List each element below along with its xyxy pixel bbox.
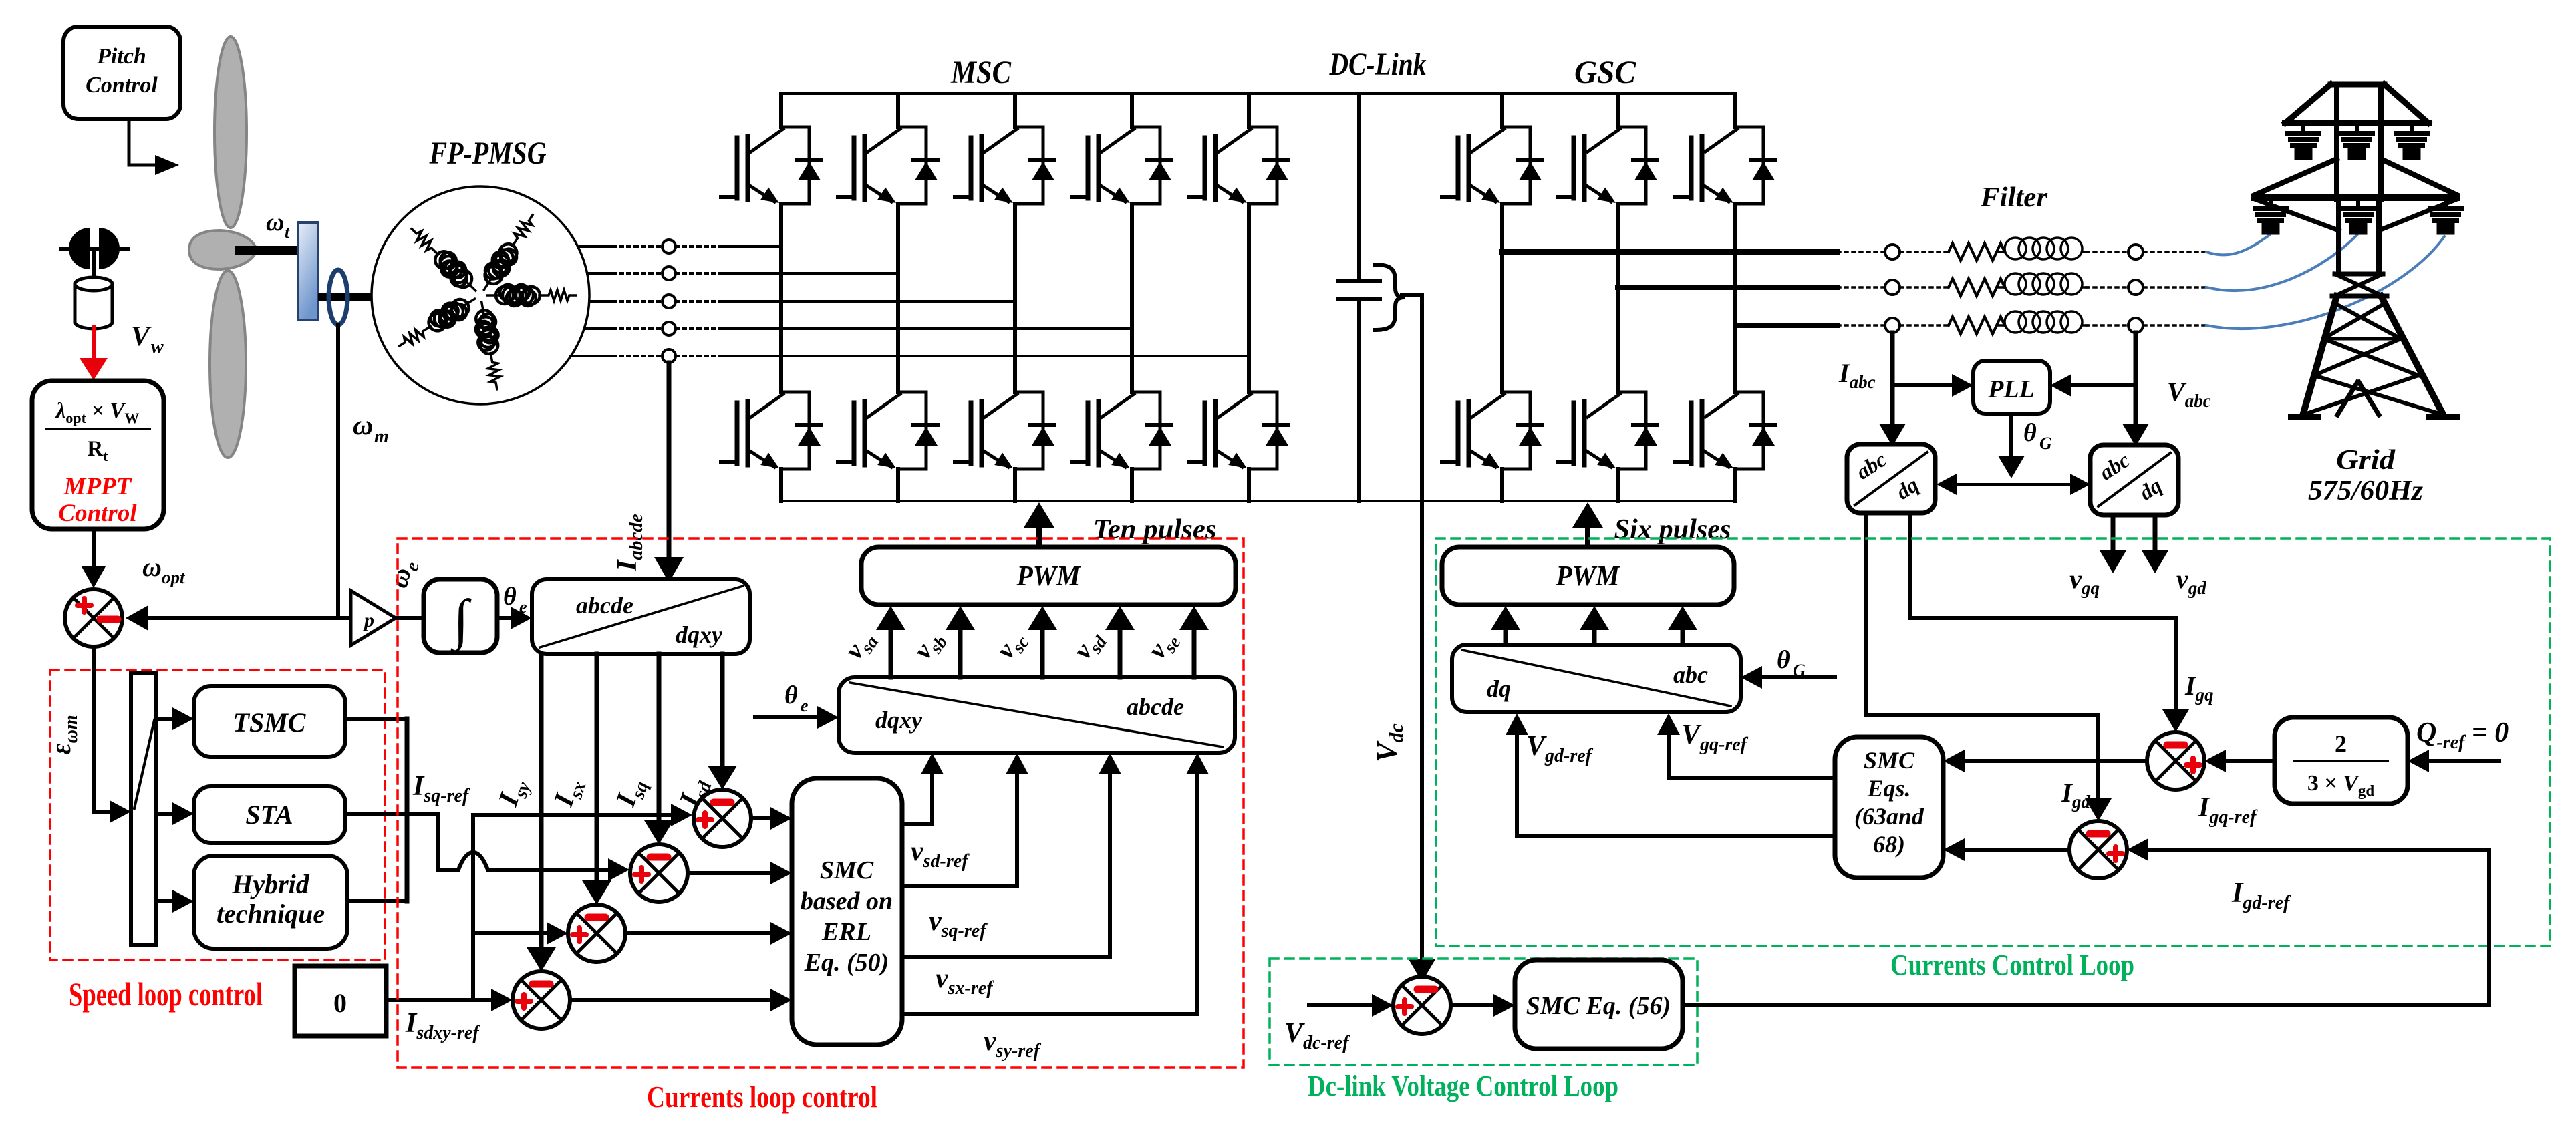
svg-text:PLL: PLL (1987, 375, 2035, 403)
svg-text:G: G (2039, 434, 2052, 453)
svg-text:SMC: SMC (1864, 747, 1915, 774)
svg-text:e: e (801, 696, 809, 715)
svg-text:m: m (374, 426, 389, 447)
svg-text:Currents Control Loop: Currents Control Loop (1890, 949, 2134, 981)
svg-text:STA: STA (245, 800, 293, 830)
svg-text:dqxy: dqxy (676, 621, 723, 648)
svg-text:PWM: PWM (1016, 561, 1081, 592)
svg-text:e: e (519, 597, 527, 617)
svg-text:SMC Eq. (56): SMC Eq. (56) (1526, 992, 1671, 1020)
svg-text:ω: ω (266, 208, 284, 236)
svg-text:SMC: SMC (820, 856, 874, 884)
svg-text:68): 68) (1873, 831, 1905, 858)
svg-text:abcde: abcde (1127, 693, 1184, 720)
svg-text:Eq. (50): Eq. (50) (804, 949, 889, 977)
svg-text:0: 0 (333, 988, 347, 1018)
svg-text:FP-PMSG: FP-PMSG (429, 136, 547, 171)
svg-text:θ: θ (2023, 419, 2037, 447)
svg-text:Ten pulses: Ten pulses (1093, 514, 1217, 545)
svg-text:abcde: abcde (576, 592, 633, 619)
svg-text:Control: Control (58, 500, 137, 527)
svg-text:based on: based on (801, 887, 893, 915)
svg-text:p: p (362, 609, 374, 631)
svg-text:abc: abc (1673, 661, 1708, 688)
svg-text:PWM: PWM (1556, 561, 1620, 592)
svg-text:(63and: (63and (1854, 803, 1924, 830)
svg-text:Hybrid: Hybrid (231, 869, 310, 899)
svg-text:dqxy: dqxy (875, 707, 923, 734)
svg-text:DC-Link: DC-Link (1329, 47, 1427, 82)
svg-text:575/60Hz: 575/60Hz (2308, 476, 2424, 506)
svg-text:2: 2 (2335, 730, 2347, 757)
svg-text:t: t (285, 222, 290, 242)
svg-text:Filter: Filter (1980, 182, 2048, 213)
svg-text:θ: θ (503, 583, 517, 611)
svg-text:opt: opt (162, 567, 186, 587)
svg-text:MSC: MSC (950, 55, 1012, 90)
svg-text:TSMC: TSMC (233, 707, 307, 738)
svg-text:V: V (131, 321, 152, 352)
svg-text:MPPT: MPPT (63, 473, 132, 500)
svg-text:Control: Control (86, 73, 158, 98)
svg-text:ω: ω (142, 552, 162, 582)
svg-text:dq: dq (1487, 675, 1511, 702)
svg-text:Speed loop control: Speed loop control (69, 975, 263, 1013)
svg-text:Grid: Grid (2336, 445, 2396, 476)
svg-text:w: w (151, 337, 164, 357)
svg-text:Currents loop control: Currents loop control (647, 1080, 877, 1114)
svg-text:θ: θ (1777, 646, 1790, 674)
svg-text:Pitch: Pitch (96, 44, 146, 69)
svg-text:θ: θ (784, 681, 798, 709)
svg-text:GSC: GSC (1574, 55, 1636, 90)
svg-text:Six pulses: Six pulses (1614, 514, 1731, 545)
svg-text:ω: ω (353, 410, 373, 441)
svg-text:ERL: ERL (821, 918, 871, 946)
svg-text:Eqs.: Eqs. (1866, 775, 1910, 802)
svg-text:G: G (1793, 661, 1806, 680)
svg-text:Dc-link Voltage Control Loop: Dc-link Voltage Control Loop (1308, 1070, 1618, 1102)
svg-text:technique: technique (217, 899, 325, 929)
